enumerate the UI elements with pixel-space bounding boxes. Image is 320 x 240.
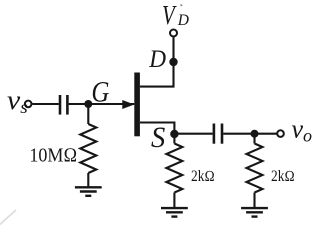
svg-text:D: D bbox=[177, 12, 189, 29]
svg-text:G: G bbox=[91, 74, 109, 108]
svg-text:S: S bbox=[151, 121, 166, 154]
svg-text:10MΩ: 10MΩ bbox=[29, 144, 77, 166]
svg-text:2kΩ: 2kΩ bbox=[271, 168, 295, 185]
svg-text:2kΩ: 2kΩ bbox=[191, 168, 215, 185]
svg-text:D: D bbox=[148, 45, 166, 73]
